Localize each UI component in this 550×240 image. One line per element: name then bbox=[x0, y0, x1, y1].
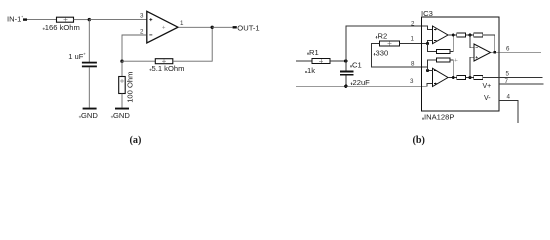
wire node up and to IC pin 2 bbox=[346, 26, 433, 61]
svg-text:100 Ohm: 100 Ohm bbox=[126, 72, 135, 103]
op-amp origin cross bbox=[162, 26, 165, 29]
wire R5.1k to output net bbox=[173, 27, 212, 61]
resistor 166 kOhm bbox=[57, 17, 74, 22]
pin 4 wire bbox=[499, 101, 518, 123]
resistor 5.1 kOhm bbox=[155, 59, 173, 64]
ground GND (left) bbox=[83, 108, 97, 110]
svg-text:22uF: 22uF bbox=[353, 78, 371, 87]
wire node B down to R 100 bbox=[121, 61, 123, 76]
svg-text:C1: C1 bbox=[352, 60, 362, 69]
resistor (bottom row right) bbox=[474, 75, 483, 79]
feedback wire to A3 output bbox=[483, 35, 495, 52]
node B junction bbox=[120, 60, 123, 63]
wire IN-1 to R 166k bbox=[27, 19, 57, 21]
wire R2 right to IC pin 1 bbox=[400, 43, 428, 45]
svg-text:8: 8 bbox=[411, 60, 415, 67]
svg-text:INA128P: INA128P bbox=[424, 113, 454, 122]
wire node A to op-amp +in bbox=[89, 19, 146, 21]
svg-text:3: 3 bbox=[140, 13, 144, 20]
svg-text:5.1 kOhm: 5.1 kOhm bbox=[152, 64, 185, 73]
IC origin cross bbox=[454, 59, 457, 62]
wire bottom row to pin 5 bbox=[483, 77, 499, 79]
svg-text:OUT-1: OUT-1 bbox=[237, 24, 259, 33]
wire R2 left loop to IC pin 8 bbox=[372, 44, 428, 68]
svg-text:R2: R2 bbox=[378, 31, 388, 40]
wire / node bottom row bbox=[466, 77, 474, 79]
IC3 box bbox=[422, 17, 500, 111]
op-amp A2 bbox=[433, 68, 449, 86]
pin origin mark IN-1 bbox=[22, 16, 24, 17]
svg-text:2: 2 bbox=[140, 28, 144, 35]
svg-text:7: 7 bbox=[505, 78, 509, 85]
pin 5 wire bbox=[499, 77, 543, 79]
wire node A down to capacitor bbox=[88, 20, 90, 62]
wire R166k to node A bbox=[74, 19, 90, 21]
node C1 junction bbox=[344, 59, 347, 62]
wire input to R1 bbox=[296, 60, 312, 62]
pin1 wire into A1 and node bbox=[428, 41, 433, 44]
resistor (top row left) bbox=[457, 33, 466, 37]
resistor R2 bbox=[380, 41, 400, 46]
resistor R1 bbox=[312, 59, 330, 64]
svg-text:GND: GND bbox=[113, 111, 130, 120]
svg-text:(a): (a) bbox=[130, 135, 142, 146]
op-amp U1 triangle bbox=[147, 11, 178, 43]
wire op-amp -in bbox=[122, 35, 147, 61]
ground GND (right) bbox=[115, 108, 129, 110]
resistor (top row right) bbox=[474, 33, 483, 37]
terminal OUT-1 bbox=[233, 26, 237, 28]
svg-text:V+: V+ bbox=[483, 83, 492, 90]
wire R1 to node C1 bbox=[330, 60, 346, 62]
feedback resistor A2 bbox=[428, 60, 437, 71]
wire R100 to GND bbox=[121, 94, 123, 108]
svg-text:1: 1 bbox=[180, 20, 184, 27]
svg-text:4: 4 bbox=[507, 93, 511, 100]
svg-text:(b): (b) bbox=[413, 135, 425, 146]
op-amp A3 bbox=[474, 44, 491, 61]
feedback resistor A1 bbox=[428, 44, 437, 52]
terminal IN-1 bbox=[23, 18, 27, 20]
wire op-amp output bbox=[179, 26, 213, 28]
node OUT junction bbox=[211, 26, 214, 29]
A2 output node bbox=[448, 77, 457, 79]
wire node to A3 -in bbox=[470, 35, 474, 48]
value label 166 kOhm bbox=[43, 28, 45, 30]
svg-text:5: 5 bbox=[506, 70, 510, 77]
node junction C1 bottom bbox=[344, 85, 347, 88]
svg-text:330: 330 bbox=[376, 48, 389, 57]
wire node to A3 +in bbox=[470, 57, 474, 77]
svg-text:1k: 1k bbox=[307, 66, 315, 75]
resistor 100 Ohm (vertical) bbox=[119, 77, 126, 94]
node A junction bbox=[88, 18, 91, 21]
svg-text:IN-1: IN-1 bbox=[7, 15, 21, 24]
svg-text:166 kOhm: 166 kOhm bbox=[45, 23, 80, 32]
svg-text:1: 1 bbox=[411, 36, 415, 43]
svg-text:1 uF: 1 uF bbox=[68, 52, 84, 61]
pin 7 wire bbox=[499, 83, 544, 85]
wire / node top row bbox=[466, 34, 474, 36]
svg-text:2: 2 bbox=[411, 20, 415, 27]
op-amp +/- marks bbox=[149, 18, 152, 21]
pin8 wire into A2 bbox=[428, 67, 433, 71]
resistor (bottom row left) bbox=[457, 75, 466, 79]
svg-text:6: 6 bbox=[506, 46, 510, 53]
svg-text:V-: V- bbox=[484, 95, 491, 102]
A1 output node bbox=[448, 34, 457, 36]
wire junction to OUT-1 terminal bbox=[212, 26, 232, 28]
capacitor 1 uF bbox=[82, 62, 97, 64]
wire bottom net to IC pin 3 bbox=[296, 84, 433, 87]
op-amp A1 bbox=[433, 26, 449, 44]
A3 output to pin 6 bbox=[491, 51, 495, 53]
capacitor C1 bbox=[340, 71, 354, 73]
svg-text:GND: GND bbox=[81, 111, 98, 120]
svg-text:R1: R1 bbox=[309, 48, 319, 57]
svg-text:3: 3 bbox=[410, 78, 414, 85]
svg-text:IC3: IC3 bbox=[421, 9, 433, 18]
wire capacitor to GND bbox=[88, 67, 90, 107]
pin 6 wire bbox=[495, 51, 541, 53]
wire node B to R 5.1k bbox=[122, 60, 155, 62]
